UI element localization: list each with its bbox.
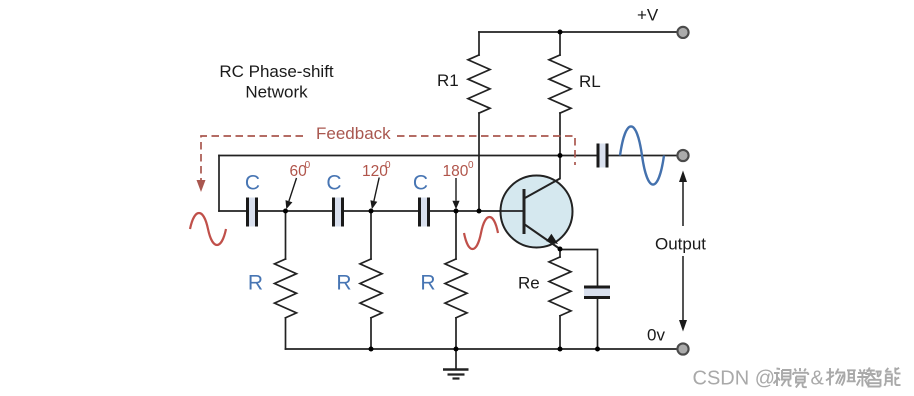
svg-text:RL: RL [579,72,601,91]
svg-text:R: R [336,272,351,295]
svg-text:Output: Output [655,235,706,254]
svg-text:R: R [420,272,435,295]
svg-text:C: C [413,172,428,195]
svg-text:0: 0 [468,160,474,171]
svg-text:180: 180 [443,163,469,180]
svg-text:C: C [326,172,341,195]
svg-text:RC Phase-shift: RC Phase-shift [219,62,334,81]
svg-text:+V: +V [637,6,659,25]
svg-text:Re: Re [518,274,540,293]
svg-text:0: 0 [385,160,391,171]
svg-text:0: 0 [305,160,311,171]
svg-text:Feedback: Feedback [316,124,391,143]
svg-text:&: & [811,368,825,390]
svg-text:C: C [245,172,260,195]
svg-text:Network: Network [245,82,308,101]
svg-text:R1: R1 [437,71,459,90]
svg-text:CSDN @: CSDN @ [693,368,776,390]
svg-text:R: R [248,272,263,295]
svg-text:0v: 0v [647,326,665,345]
